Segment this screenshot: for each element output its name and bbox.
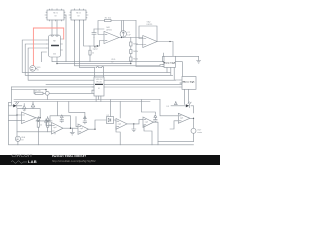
resistor R7 horizontal (35, 90, 43, 94)
cap C3 (60, 115, 64, 123)
wire: left subcircuit outer (9, 87, 194, 145)
wire: input to op-amp OA1 (89, 41, 104, 47)
cap C4 (83, 116, 87, 124)
svg-text:meter: meter (197, 131, 202, 134)
svg-text:LM741: LM741 (106, 30, 112, 32)
wire: buses into U4 left (104, 80, 182, 87)
resistor R6 vertical right of OA2 (162, 53, 164, 62)
svg-text:op4: op4 (118, 124, 121, 126)
op-amp OA6 (116, 119, 127, 130)
svg-text:op2: op2 (53, 127, 56, 129)
junction dot OA4 out (70, 128, 71, 129)
zener Z2 triangle (31, 102, 34, 109)
wire: long mid buses (14, 100, 160, 102)
footer title text (52, 154, 86, 158)
capacitor C1 (92, 29, 104, 46)
svg-text:1k: 1k (40, 125, 42, 127)
node Vin dark label (93, 45, 99, 50)
microcontroller U3 box (162, 56, 176, 80)
wire: OA6 out to OA7, ground (116, 120, 143, 145)
relay K1 box (45, 9, 66, 35)
svg-text:D3: D3 (167, 106, 169, 108)
CircuitLab logo (12, 154, 42, 159)
wire: resistor+meter feed into U5 (12, 90, 95, 100)
op-amp OA1 (104, 26, 119, 43)
logo LAB text (28, 159, 37, 164)
wire: OA1 feedback (98, 21, 143, 38)
wire: B1 right pin vertical (64, 15, 66, 62)
wire: OA4 input/feedback (46, 102, 78, 129)
wire: OA2 feedback loop (136, 21, 164, 67)
resistor R8 vertical (37, 122, 42, 132)
resistor R2 feedback (105, 18, 112, 22)
timer IC U1 (47, 35, 64, 57)
ammeter M1 (45, 91, 49, 95)
cap symbol T4 (174, 101, 177, 105)
cap C5 (154, 115, 158, 122)
ground GND1 (197, 61, 201, 64)
svg-text:D2: D2 (107, 115, 109, 117)
op-amp OA5 (78, 124, 89, 134)
jumper arc 2 (102, 67, 104, 68)
op-amp OA3 (22, 110, 37, 123)
red wire net (33, 28, 63, 66)
footer bar (0, 155, 220, 165)
svg-text:signal: signal (93, 48, 99, 50)
wire: OA3 out region (36, 117, 52, 122)
svg-text:RLY1: RLY1 (53, 13, 58, 15)
wire: OA5 feedback (69, 102, 107, 130)
wire: feeds from U4 to LED D3 (171, 106, 194, 113)
ground GND2 (70, 128, 74, 135)
voltmeter M2 (191, 128, 203, 134)
microcontroller U4 box (180, 77, 196, 105)
svg-text:op1: op1 (23, 110, 26, 112)
svg-text:RLY2: RLY2 (76, 13, 81, 15)
cap symbol T2 (46, 116, 49, 120)
wire: buses from IC bottom pins (52, 57, 182, 77)
cap symbol T3 (45, 119, 48, 123)
junction dots (16, 37, 194, 130)
wire: OA3 feedback (9, 109, 41, 137)
op-amp OA4 (52, 123, 64, 135)
voltage source V2 (15, 136, 26, 145)
wire: U3 to ground and U4 (175, 56, 198, 60)
microcontroller U5 box (92, 77, 104, 102)
svg-text:Micro: high: Micro: high (163, 62, 175, 64)
LED D1 (9, 102, 22, 108)
svg-text:op5: op5 (145, 122, 148, 124)
svg-text:op3: op3 (80, 128, 83, 130)
LED D3 (167, 102, 192, 108)
wire: OA2 output to U3 (157, 42, 173, 57)
svg-text:PIC16: PIC16 (96, 82, 101, 84)
current source I1 (120, 21, 131, 38)
wire: left bus verticals from IC left pins (22, 40, 175, 80)
diode box DB1 (107, 115, 114, 124)
resistor R9 vertical (47, 122, 52, 132)
jumper arc 1 (97, 67, 99, 68)
op-amp OA2 (143, 21, 157, 48)
wire: left feed into U5 (12, 86, 95, 88)
logo waveform (11, 160, 27, 162)
svg-text:555: 555 (53, 54, 56, 56)
op-amp OA8 (178, 113, 190, 123)
resistor R1 vertical (89, 46, 94, 62)
resistor ladder R3 R4 R5 (130, 38, 139, 64)
U1 dark label (51, 45, 59, 46)
svg-text:1k: 1k (92, 53, 94, 55)
wire: B2 bottom pins verticals (75, 20, 165, 68)
wire: OA7 feedback + out (141, 100, 158, 145)
svg-text:Micro: high: Micro: high (183, 81, 195, 83)
wire: OA8 connections (158, 100, 194, 142)
wire: bump jumper wire into U5 top (95, 68, 104, 77)
svg-text:R7 220: R7 220 (35, 90, 41, 92)
relay K2 box (69, 9, 88, 21)
svg-text:R2 10k: R2 10k (105, 18, 111, 20)
wire: sub bus y=131.8 (17, 132, 55, 145)
wire: bus y=84.3 (46, 83, 182, 85)
wire: buses down to OA6 (111, 100, 121, 122)
cap symbol T1 (37, 116, 40, 120)
voltage source V1 (30, 66, 41, 72)
op-amp OA7 (143, 117, 154, 127)
zener Z1 triangle (23, 104, 26, 110)
svg-text:op6: op6 (180, 118, 183, 120)
ground GND3 (132, 129, 136, 132)
footer url text (52, 159, 96, 163)
